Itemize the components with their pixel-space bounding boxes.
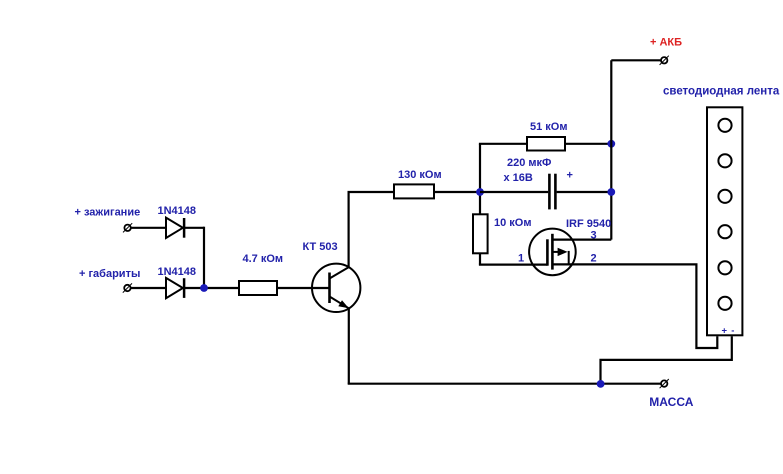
transistor Q2 IRF 9540 — [529, 229, 576, 276]
svg-text:светодиодная лента: светодиодная лента — [663, 85, 780, 97]
wire R3 right to main rail — [565, 143, 611, 145]
wire rail to АКБ terminal — [611, 59, 661, 61]
resistor R1 4.7 кОм — [239, 281, 277, 295]
svg-text:+: + — [567, 170, 573, 182]
terminal + зажигание — [123, 223, 132, 232]
wire vertical VD1 to node A — [203, 227, 205, 288]
svg-text:10 кОм: 10 кОм — [494, 217, 532, 229]
LED strip hole 3 — [718, 190, 731, 203]
wire collector to R2 — [348, 191, 395, 193]
svg-text:IRF 9540: IRF 9540 — [566, 218, 611, 230]
svg-text:130 кОм: 130 кОм — [398, 169, 442, 181]
wire parking to VD2 — [131, 287, 166, 289]
svg-text:51 кОм: 51 кОм — [530, 121, 568, 133]
node: rail at 51k junction dot — [607, 140, 615, 148]
node: rail at C1 junction dot — [607, 188, 615, 196]
wire R4 bottom to gate corner — [479, 253, 481, 264]
wire emitter Q1 down — [348, 308, 350, 384]
LED strip hole 5 — [718, 261, 731, 274]
node B junction dot — [476, 188, 484, 196]
svg-text:220 мкФ: 220 мкФ — [507, 157, 551, 169]
wire ignition to VD1 — [131, 227, 166, 229]
capacitor C1 220 мкФ x 16В — [549, 174, 555, 210]
svg-text:+ АКБ: + АКБ — [650, 37, 682, 49]
svg-text:+: + — [722, 325, 728, 336]
LED strip hole 1 — [718, 119, 731, 132]
diode VD2 1N4148 — [166, 278, 184, 298]
wire main vertical rail +АКБ — [610, 60, 612, 239]
node A junction dot — [200, 284, 208, 292]
svg-text:КТ 503: КТ 503 — [303, 241, 338, 253]
svg-text:-: - — [731, 325, 734, 336]
terminal + АКБ — [660, 56, 669, 65]
wire source Q2 pin2 to LED strip plus — [553, 264, 717, 348]
svg-text:+ габариты: + габариты — [79, 268, 140, 280]
wire node B to C1 left plate — [480, 191, 548, 193]
diode VD1 1N4148 — [166, 218, 184, 238]
wire LED strip minus to ground node — [601, 336, 732, 383]
svg-text:+ зажигание: + зажигание — [75, 207, 141, 219]
resistor R3 51 кОм — [527, 137, 565, 151]
LED strip hole 4 — [718, 225, 731, 238]
wire to R3 left — [479, 143, 527, 145]
svg-text:1N4148: 1N4148 — [158, 266, 197, 278]
svg-text:1N4148: 1N4148 — [158, 205, 197, 217]
wire VD1 cathode to node A — [185, 227, 204, 229]
wire R1 to base Q1 — [277, 287, 330, 289]
transistor Q1 КТ 503 — [312, 264, 360, 312]
wire drain stub Q2 pin3 to rail — [553, 239, 611, 241]
svg-text:х 16В: х 16В — [504, 172, 533, 184]
svg-text:МАССА: МАССА — [649, 395, 693, 409]
wire VD2 cathode to R1 — [185, 287, 239, 289]
wire node B vertical (51k corner down through node to R4) — [479, 144, 481, 215]
LED strip hole 2 — [718, 154, 731, 167]
wire gate horizontal to Q2 — [479, 264, 548, 266]
resistor R2 130 кОм — [394, 184, 434, 198]
svg-text:4.7 кОм: 4.7 кОм — [243, 253, 284, 265]
wire ground horizontal — [348, 383, 661, 385]
wire C1 right plate to rail — [557, 191, 612, 193]
LED strip hole 6 — [718, 297, 731, 310]
svg-text:1: 1 — [518, 253, 524, 265]
wire R2 to node B — [434, 191, 480, 193]
LED strip connector body — [707, 107, 742, 335]
resistor R4 10 кОм — [473, 214, 488, 253]
terminal + габариты — [123, 283, 132, 292]
wire collector Q1 up — [348, 192, 350, 267]
node: ground junction dot — [597, 380, 605, 388]
svg-text:2: 2 — [591, 253, 597, 265]
terminal МАССА — [660, 379, 669, 388]
